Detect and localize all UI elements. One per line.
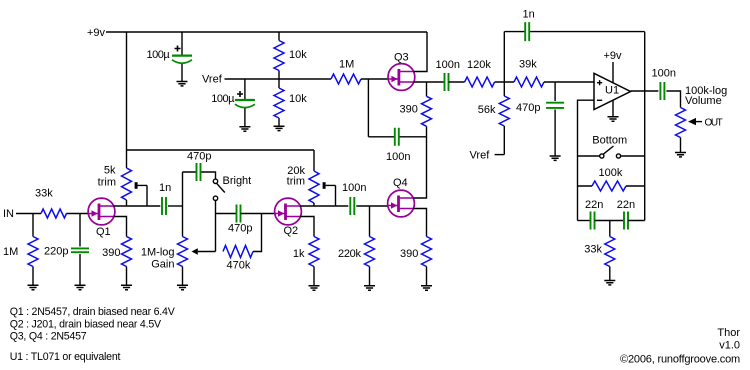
switch SW2 Bright (213, 175, 251, 201)
resistor R15 390 Q4 source (400, 237, 432, 286)
svg-text:Gain: Gain (151, 259, 174, 271)
svg-text:U1: U1 (605, 85, 619, 97)
capacitor C3 100n Q3 bypass (368, 128, 426, 163)
wire 1n to gain node (168, 205, 183, 207)
svg-text:Q2 : J201, drain biased near 4: Q2 : J201, drain biased near 4.5V (10, 319, 162, 331)
svg-text:trim: trim (98, 177, 116, 189)
svg-text:390: 390 (400, 248, 418, 260)
wire Q3 drain to +9v rail (414, 32, 427, 72)
ground 220p (75, 285, 86, 289)
ground 10k divider (274, 126, 285, 130)
wire bright switch to wiper line (215, 201, 217, 252)
svg-text:100n: 100n (386, 151, 410, 163)
transistor Q2 (275, 198, 302, 237)
svg-text:OUT: OUT (705, 117, 723, 128)
svg-text:390: 390 (102, 247, 120, 259)
wire 100n to Q4 gate (356, 205, 387, 207)
wire Q4 drain to Q3 source network (413, 137, 426, 198)
svg-text:10k: 10k (289, 93, 307, 105)
transistor Q3 (388, 52, 415, 91)
wire 100n to 120k (449, 81, 465, 83)
potentiometer VR4 20k trim (287, 150, 336, 206)
capacitor C2 100µ Vref bypass (211, 79, 255, 127)
svg-text:v1.0: v1.0 (719, 340, 740, 352)
wire Q2 drain (300, 205, 348, 207)
capacitor C1 100µ filter (147, 32, 193, 82)
svg-text:1n: 1n (523, 9, 535, 21)
wire Q3 gate bypass drop (367, 79, 369, 137)
wire gain node vertical (182, 172, 184, 237)
wire 470p to Q2 gate (241, 213, 275, 215)
svg-text:10k: 10k (289, 49, 307, 61)
ground 470p (550, 156, 561, 160)
capacitor C4 100n interstage (436, 59, 460, 91)
wire feedback node drop (503, 32, 505, 82)
svg-text:220p: 220p (44, 246, 68, 258)
wire output rail right side (644, 32, 646, 221)
wire bright to Q2 gate (216, 213, 237, 215)
resistor R2 10k divider lower (274, 79, 307, 126)
transistor Q4 (388, 177, 415, 217)
capacitor C13 470p gain bypass (228, 205, 252, 235)
wire 120k to 39k (495, 81, 514, 83)
capacitor C14 100n interstage Q2-Q4 (342, 182, 366, 215)
svg-text:1M: 1M (339, 59, 354, 71)
svg-text:+9v: +9v (87, 27, 106, 39)
ground 100µ Vref bypass (239, 127, 250, 131)
svg-text:33k: 33k (584, 244, 602, 256)
svg-text:470p: 470p (516, 102, 540, 114)
wire Q1 source (114, 217, 127, 237)
svg-text:Q2: Q2 (284, 225, 299, 237)
svg-text:100n: 100n (342, 182, 366, 194)
svg-text:1n: 1n (159, 182, 171, 194)
svg-text:22n: 22n (585, 199, 603, 211)
ground 1M input (28, 285, 39, 289)
capacitor C10 220p input (44, 214, 89, 286)
svg-text:Bottom: Bottom (592, 135, 627, 147)
resistor R7 39k (514, 58, 544, 87)
ground 390 Q1 (121, 285, 132, 289)
ground 220k (364, 286, 375, 290)
wire Q2 source (300, 217, 314, 237)
svg-text:100n: 100n (436, 59, 460, 71)
wire U1 inverting input to network (578, 100, 595, 220)
svg-text:100µ: 100µ (211, 93, 235, 105)
U1 +9v supply (604, 50, 623, 83)
wire 33k to Q1 gate (67, 213, 89, 215)
svg-text:Q3, Q4 : 2N5457: Q3, Q4 : 2N5457 (10, 331, 87, 343)
resistor R14 1k Q2 source (293, 237, 319, 286)
ground 390 Q4 (421, 286, 432, 290)
svg-text:Q3: Q3 (394, 52, 409, 64)
wire U1 ground lead (612, 100, 614, 117)
capacitor C9 22n right (595, 199, 645, 230)
ground U1 (608, 117, 619, 121)
op-amp U1 (594, 73, 631, 109)
svg-text:100µ: 100µ (147, 49, 171, 61)
capacitor C8 22n left (578, 199, 604, 230)
svg-text:+9v: +9v (604, 50, 623, 62)
resistor R12 470k (223, 246, 253, 272)
svg-text:470p: 470p (187, 151, 211, 163)
svg-text:56k: 56k (478, 104, 496, 116)
resistor R16 390 Q1 source (102, 237, 131, 286)
resistor R4 390 Q3 source (400, 82, 432, 137)
potentiometer VR1 100k-log Volume (676, 85, 728, 153)
svg-text:220k: 220k (338, 248, 361, 260)
switch SW1 Bottom (578, 135, 645, 159)
wire Q3 source output (414, 81, 445, 83)
resistor R10 33k input (35, 188, 67, 219)
resistor R3 1M Vref to Q3 gate (331, 59, 361, 85)
ground gain pot (177, 285, 188, 289)
wire +9v rail (106, 31, 427, 33)
svg-text:Thor: Thor (717, 327, 740, 339)
svg-text:22n: 22n (617, 199, 635, 211)
potentiometer VR2 5k trim (98, 165, 147, 207)
svg-text:5k: 5k (104, 165, 116, 177)
capacitor C5 470p to ground (516, 82, 564, 156)
capacitor C11 1n coupling (159, 182, 171, 215)
ground 1k (309, 286, 320, 290)
svg-text:470p: 470p (228, 223, 252, 235)
svg-text:100n: 100n (652, 67, 676, 79)
svg-text:1M-log: 1M-log (141, 246, 175, 258)
wire drain supply branch (127, 149, 315, 151)
wire output cap to volume pot (666, 91, 680, 108)
resistor R6 56k to Vref (478, 82, 510, 155)
wire U1 output (631, 90, 659, 92)
svg-text:Q4: Q4 (393, 177, 408, 189)
wire 1M to Q3 gate (361, 78, 388, 80)
wire +9v rail drop to 5k trim (126, 32, 128, 168)
wire Q1 drain (114, 205, 161, 207)
resistor R11 1M input (3, 214, 38, 286)
svg-text:1M: 1M (3, 246, 18, 258)
wire input (16, 213, 41, 215)
svg-text:Vref: Vref (202, 74, 223, 86)
svg-text:Q1 : 2N5457, drain biased near: Q1 : 2N5457, drain biased near 6.4V (10, 306, 176, 318)
capacitor C7 100n output (652, 67, 676, 100)
svg-text:©2006, runoffgroove.com: ©2006, runoffgroove.com (620, 354, 740, 366)
resistor R8 100k bottom (578, 167, 645, 191)
wire Vref stub at 56k (495, 154, 505, 156)
wire 470k right leg (253, 214, 262, 252)
svg-text:33k: 33k (35, 188, 53, 200)
svg-text:120k: 120k (467, 59, 491, 71)
svg-text:470k: 470k (227, 260, 251, 272)
transistor Q1 (88, 198, 115, 238)
svg-text:Vref: Vref (470, 150, 491, 162)
resistor R1 10k divider upper (274, 32, 307, 79)
potentiometer VR3 1M-log Gain (141, 237, 216, 286)
capacitor C12 470p bright (183, 151, 216, 182)
wire 39k to op-amp + (544, 81, 594, 83)
svg-text:Bright: Bright (223, 175, 252, 187)
ground volume pot (675, 153, 686, 157)
resistor R13 220k Q4 gate (338, 206, 375, 286)
svg-text:Q1: Q1 (96, 226, 111, 238)
svg-text:Volume: Volume (685, 95, 722, 107)
resistor R5 120k (465, 59, 495, 87)
svg-text:U1 : TL071 or equivalent: U1 : TL071 or equivalent (10, 351, 121, 363)
svg-text:390: 390 (400, 104, 418, 116)
wire Vref line (225, 78, 332, 80)
svg-text:39k: 39k (519, 58, 537, 70)
ground 33k (604, 281, 615, 285)
resistor R9 33k bottom network (584, 221, 615, 281)
svg-text:trim: trim (287, 176, 305, 188)
ground 100µ filter cap (177, 82, 188, 86)
capacitor C6 1n feedback (504, 9, 644, 42)
svg-text:IN: IN (3, 208, 14, 220)
svg-text:1k: 1k (293, 248, 305, 260)
svg-text:100k: 100k (599, 167, 623, 179)
wire Q4 source (413, 209, 426, 237)
